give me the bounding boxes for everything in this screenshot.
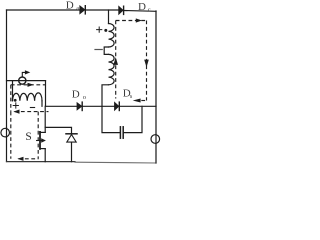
transistor S (switch) xyxy=(37,132,46,149)
minus sign (upper winding voltage) xyxy=(95,49,102,51)
polarity dot upper winding xyxy=(104,29,107,32)
wire snubber-cap loop right xyxy=(124,106,142,132)
arrow right on loop3 top edge xyxy=(136,18,142,22)
minus sign (LM voltage) xyxy=(30,107,34,109)
wire right rail xyxy=(155,11,157,163)
wire top rail segment 3 (after Dc to top-right corner) xyxy=(124,10,156,13)
diode Da xyxy=(80,6,86,14)
wire body-diode branch top xyxy=(45,127,71,133)
svg-text:o: o xyxy=(83,94,86,101)
transformer lower winding (4 arcs bulging right) xyxy=(109,54,115,84)
diode Dc xyxy=(119,6,124,14)
wire input branch top (LM parallel wire) xyxy=(7,80,46,82)
current direction arrow at probe xyxy=(22,70,30,77)
wire bottom rail left part xyxy=(7,161,76,163)
dashed loop 3 right edge xyxy=(146,21,148,101)
wire jog between windings xyxy=(104,47,108,54)
wire LM right vertical down to mid rail xyxy=(45,81,47,107)
wire mid rail segment 3 xyxy=(120,105,156,107)
polarity dot LM xyxy=(14,99,17,102)
svg-text:c: c xyxy=(148,6,151,13)
dashed loop 3 top edge xyxy=(116,20,147,22)
wire LM left vertical xyxy=(12,81,14,101)
wire winding bottom return xyxy=(102,85,109,107)
wire left rail xyxy=(6,10,8,162)
wire from top rail down to transformer upper winding xyxy=(108,10,110,24)
svg-text:a: a xyxy=(76,5,79,12)
label Dc xyxy=(138,1,151,13)
svg-text:D: D xyxy=(66,0,74,12)
current probe circle on input wire xyxy=(19,77,26,84)
label Ds xyxy=(123,87,133,100)
wire bottom rail right part xyxy=(75,161,156,164)
dashed loop 2 right edge xyxy=(37,112,39,159)
wire switch source down to bottom rail xyxy=(44,149,46,162)
plus sign (LM voltage) xyxy=(13,103,18,108)
diode Do xyxy=(77,102,82,110)
dashed loop 2 left edge xyxy=(10,112,12,159)
transformer upper winding (3 arcs bulging right) xyxy=(109,24,115,48)
wire switch drain vertical xyxy=(44,106,46,132)
wire LM right end down to mid rail xyxy=(41,101,43,107)
wire through left port circle xyxy=(6,128,8,137)
arrow left on loop3 bottom edge xyxy=(133,99,141,103)
dashed loop 3 left edge xyxy=(115,21,117,99)
wire mid rail segment 1 xyxy=(46,105,77,107)
dashed loop 3 bottom edge xyxy=(141,100,146,102)
body diode (pointing up) xyxy=(66,134,77,142)
wire body-diode branch bottom xyxy=(71,142,73,162)
arrow left on loop2 bottom edge xyxy=(17,157,23,161)
wire snubber-cap loop left xyxy=(102,106,120,132)
capacitor C plates xyxy=(120,127,123,138)
svg-text:S: S xyxy=(25,131,31,143)
dashed loop 1 top edge (LM box) xyxy=(11,84,46,86)
dashed loop 1 left edge xyxy=(10,85,12,112)
svg-text:s: s xyxy=(130,93,133,100)
port circle right (output terminal) xyxy=(151,135,160,144)
label Da xyxy=(66,0,79,12)
arrow down on loop3 right edge xyxy=(144,60,149,68)
plus sign (upper winding voltage) xyxy=(97,27,102,32)
diode Ds xyxy=(115,102,120,110)
wire through right port circle xyxy=(155,135,157,144)
inductor LM (4 arcs) xyxy=(13,93,43,101)
dashed loop 1 bottom edge xyxy=(15,111,49,113)
wire mid rail segment 2 xyxy=(83,105,115,107)
wire top rail segment 1 xyxy=(7,9,81,11)
port circle left (input terminal) xyxy=(1,128,10,137)
svg-text:D: D xyxy=(72,89,80,101)
arrow up on loop3 left edge xyxy=(113,57,118,65)
dashed loop 2 bottom edge xyxy=(19,158,39,160)
arrow left on loop1 bottom edge xyxy=(13,110,19,114)
arrow right on loop1 top edge xyxy=(28,83,34,87)
wire top rail segment 2 (between Da and Dc) xyxy=(86,9,119,11)
svg-text:D: D xyxy=(138,1,146,13)
label Do xyxy=(72,89,86,101)
